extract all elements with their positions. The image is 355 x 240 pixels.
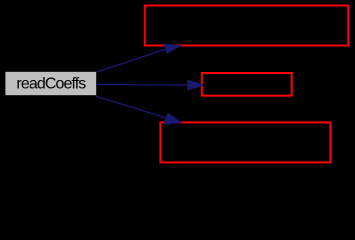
- node box3 (bottom callee, truncated red border): [160, 122, 330, 162]
- edge arrow 1: readCoeffs to top box: [96, 44, 181, 72]
- node box1 (top callee, truncated red border): [145, 6, 348, 46]
- node readCoeffs (root, grey fill): [5, 72, 96, 95]
- edge arrow 2: readCoeffs to middle box: [96, 80, 204, 90]
- edge arrow 3: readCoeffs to bottom box: [96, 96, 181, 124]
- node box2 (middle callee, truncated red border): [202, 73, 292, 96]
- svg-text:readCoeffs: readCoeffs: [16, 75, 86, 92]
